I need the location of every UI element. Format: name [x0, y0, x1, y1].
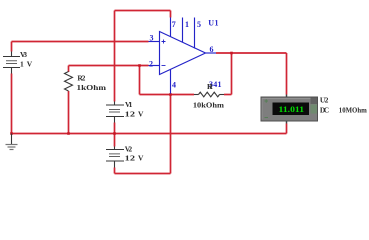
svg-text:4: 4 — [172, 80, 176, 89]
svg-text:V3: V3 — [20, 50, 27, 59]
svg-text:10MOhm: 10MOhm — [339, 106, 368, 115]
svg-text:12: 12 — [125, 110, 136, 119]
svg-text:12: 12 — [125, 153, 136, 162]
svg-text:V: V — [138, 153, 144, 162]
svg-text:2: 2 — [149, 59, 153, 68]
svg-text:U2: U2 — [320, 96, 329, 105]
svg-text:V1: V1 — [125, 100, 133, 109]
svg-text:R1: R1 — [207, 82, 213, 91]
svg-text:6: 6 — [210, 45, 214, 54]
svg-text:5: 5 — [197, 20, 201, 29]
svg-text:U1: U1 — [208, 19, 218, 28]
svg-text:DC: DC — [320, 106, 329, 115]
svg-text:1: 1 — [185, 20, 189, 29]
svg-text:R2: R2 — [77, 73, 85, 82]
svg-text:10kOhm: 10kOhm — [193, 101, 225, 110]
svg-text:V2: V2 — [125, 145, 133, 154]
svg-text:1: 1 — [20, 59, 24, 68]
svg-text:V: V — [27, 59, 33, 68]
svg-text:7: 7 — [172, 20, 176, 29]
svg-text:3: 3 — [150, 33, 154, 42]
svg-text:11.011: 11.011 — [279, 104, 305, 114]
svg-text:V: V — [138, 110, 144, 119]
svg-text:1kOhm: 1kOhm — [77, 83, 107, 92]
